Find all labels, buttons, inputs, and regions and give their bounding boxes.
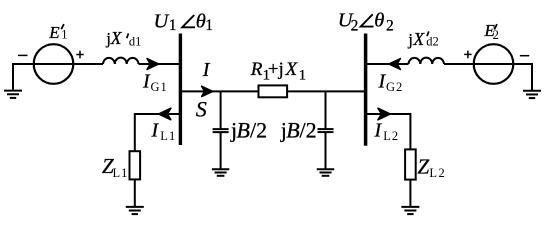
prime mark (jX'd1) [127, 33, 129, 38]
wire (load branch 2) [366, 114, 410, 149]
polarity - (E2') [520, 55, 529, 57]
svg-text:B: B [286, 118, 299, 143]
svg-text:L2: L2 [429, 166, 446, 180]
svg-text:2: 2 [351, 18, 359, 35]
svg-text:G2: G2 [386, 80, 403, 94]
wire [325, 132, 327, 169]
svg-text:X: X [412, 29, 425, 49]
wire (load branch 1) [135, 114, 180, 151]
wire (transmission line) [180, 90, 365, 92]
svg-text:I: I [151, 120, 160, 142]
svg-text:2: 2 [493, 28, 499, 42]
wire [220, 132, 222, 169]
prime mark (E2') [494, 24, 497, 29]
current arrow IL1 [158, 108, 171, 120]
ground (load 2) [401, 207, 419, 214]
wire [444, 63, 474, 65]
wire [156, 63, 180, 65]
load impedance ZL2 [405, 149, 416, 179]
wire [409, 180, 411, 207]
svg-text:R: R [250, 59, 263, 80]
current arrow IG2 [389, 59, 401, 70]
svg-text:1: 1 [205, 17, 213, 34]
polarity - (E1') [18, 54, 28, 56]
svg-text:+j: +j [268, 59, 284, 80]
svg-text:G1: G1 [151, 80, 168, 94]
svg-text:L1: L1 [160, 129, 176, 143]
wire [134, 179, 136, 207]
svg-text:/2: /2 [250, 118, 267, 143]
ground (left source) [4, 91, 22, 98]
svg-text:j: j [407, 30, 413, 49]
ground (right source) [523, 91, 541, 98]
wire [73, 63, 103, 65]
capacitor jB/2 (right) [318, 129, 334, 132]
load impedance ZL1 [130, 151, 141, 179]
inductor jX'd1 [103, 58, 139, 64]
svg-text:X: X [110, 28, 123, 48]
svg-text:1: 1 [61, 28, 67, 42]
wire [366, 63, 409, 65]
svg-text:θ: θ [374, 10, 384, 32]
svg-text:d2: d2 [426, 34, 439, 48]
svg-text:1: 1 [169, 17, 177, 34]
svg-text:/2: /2 [300, 118, 317, 143]
voltage source E2' [474, 44, 514, 84]
resistor R1+jX1 [259, 85, 288, 97]
svg-text:U: U [154, 10, 170, 32]
angle symbol (U1 label) [182, 15, 195, 27]
prime mark (jX'd2) [427, 31, 429, 36]
svg-text:2: 2 [386, 18, 394, 35]
wire [139, 63, 150, 65]
svg-text:L1: L1 [113, 166, 129, 180]
svg-text:d1: d1 [129, 35, 142, 49]
ground (right shunt) [317, 169, 334, 176]
wire (right shunt branch) [325, 91, 327, 129]
svg-text:I: I [202, 59, 211, 81]
bus bar 1 (node U1) [179, 34, 182, 146]
svg-text:I: I [374, 120, 383, 142]
svg-text:E: E [48, 23, 60, 42]
capacitor jB/2 (left) [213, 129, 229, 132]
wire (left shunt branch) [220, 91, 222, 129]
ground (load 1) [126, 207, 144, 214]
wire [513, 64, 532, 90]
svg-text:X: X [285, 59, 299, 80]
prime mark (E1') [61, 24, 64, 29]
ground (left shunt) [212, 169, 229, 176]
power flow arrow S [202, 86, 213, 96]
svg-text:L2: L2 [383, 129, 399, 143]
current arrow IL2 [378, 108, 391, 120]
polarity + (E1') [76, 51, 83, 59]
current arrow IG1 [147, 59, 159, 70]
wire [13, 64, 34, 90]
polarity + (E2') [464, 51, 471, 59]
angle symbol (U2 label) [361, 14, 374, 26]
svg-text:S: S [196, 97, 207, 122]
svg-text:B: B [237, 118, 250, 143]
voltage source E1' [34, 44, 74, 84]
svg-text:1: 1 [299, 67, 307, 83]
svg-text:Z: Z [418, 155, 430, 179]
inductor jX'd2 [409, 58, 445, 64]
bus bar 2 (node U2) [364, 34, 368, 146]
